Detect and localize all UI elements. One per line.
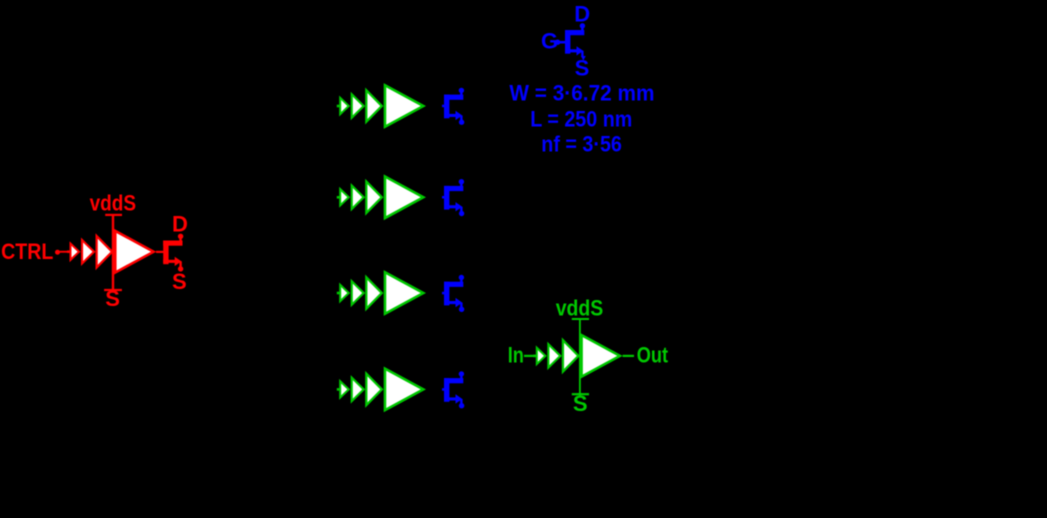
svg-text:CTRL: CTRL [1,239,53,264]
svg-text:D: D [574,2,590,27]
svg-text:In: In [508,342,524,367]
svg-text:S: S [573,391,588,416]
svg-text:D: D [172,211,188,236]
svg-text:S: S [575,56,590,81]
svg-text:L = 250 nm: L = 250 nm [530,107,632,132]
svg-text:S: S [172,269,187,294]
svg-text:vddS: vddS [556,296,604,321]
svg-text:nf = 3·56: nf = 3·56 [541,132,622,157]
svg-text:S: S [105,286,120,311]
svg-text:vddS: vddS [90,191,137,216]
svg-text:W = 3·6.72 mm: W = 3·6.72 mm [509,81,654,106]
svg-text:Out: Out [637,343,669,368]
svg-text:G: G [541,29,558,54]
